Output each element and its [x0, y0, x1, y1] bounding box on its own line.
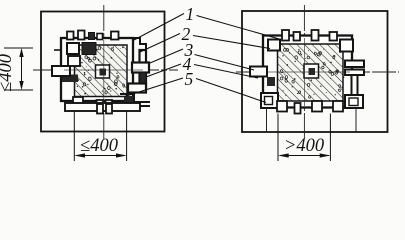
right hatch speckles	[282, 49, 344, 96]
left vertical centerline	[103, 5, 105, 141]
left right step	[132, 38, 146, 52]
leader 2 right	[193, 36, 270, 49]
right corner drop line left	[266, 108, 268, 132]
right bottom dimension >400	[278, 114, 330, 162]
leader 4 right	[194, 65, 258, 79]
left bottom dimension <=400	[74, 111, 126, 161]
leader 1 right	[197, 16, 282, 40]
left die frame plate	[61, 38, 133, 101]
left press table outline	[41, 12, 165, 132]
left right clamp lower bar	[128, 84, 146, 93]
right top bolt tabs	[282, 30, 289, 41]
left die block hatched	[75, 45, 128, 97]
left bottom tabs	[73, 97, 83, 106]
left vertical dimension <=400	[4, 48, 33, 90]
right top-right clamp notch	[340, 40, 353, 52]
right vertical centerline	[303, 5, 305, 141]
leader 5 left	[125, 78, 183, 97]
right bottom tabs	[277, 101, 287, 112]
left center insert	[100, 69, 107, 76]
right bottom-left step block	[261, 93, 278, 108]
svg-text:1: 1	[186, 4, 195, 24]
left right clamp upper bar	[132, 63, 149, 73]
left bottom-right step block	[116, 94, 150, 106]
svg-text:≤400: ≤400	[80, 136, 119, 156]
right die frame plate	[263, 36, 352, 108]
leader 5 right	[196, 79, 266, 103]
svg-text:≤400: ≤400	[0, 53, 16, 92]
left bottom center notch tabs	[97, 104, 103, 114]
left left clamp bar	[52, 66, 70, 76]
leader 4 left	[146, 64, 181, 77]
left left step box	[68, 56, 80, 66]
right corner drop line right	[355, 108, 357, 132]
right center insert	[309, 68, 316, 75]
leader 2 left	[140, 34, 180, 53]
left centerline overlay	[64, 40, 143, 104]
left right clamp bolt dark	[141, 73, 146, 86]
right right clamp bar	[345, 61, 364, 68]
leader 3 right	[195, 55, 255, 71]
left top-left clamp notch	[67, 43, 79, 54]
left frame left tick	[54, 49, 62, 51]
left left clamp dark bar	[62, 75, 78, 83]
right horizontal centerline	[236, 71, 399, 73]
left top bolt tabs	[67, 32, 74, 40]
left center die opening	[96, 65, 110, 78]
left bottom base bar	[65, 103, 140, 111]
right bottom-right step block	[345, 95, 363, 108]
right left clamp bar	[250, 67, 267, 77]
right centerline overlay	[266, 38, 350, 106]
right left clamp bolt dark	[267, 77, 275, 86]
right center die opening	[304, 64, 319, 78]
leader 1 left	[134, 14, 184, 41]
leader 3 left	[150, 49, 183, 63]
right hatch o-marks	[280, 46, 343, 99]
right die block hatched	[278, 44, 344, 101]
left horizontal centerline	[33, 69, 178, 71]
right right clamp column	[352, 75, 358, 100]
svg-text:5: 5	[185, 69, 194, 89]
left right clamp column	[140, 50, 147, 88]
left top clamp block dark	[82, 43, 96, 55]
left hatch speckles	[77, 46, 124, 94]
svg-text:>400: >400	[284, 136, 325, 156]
left hatch o-marks	[83, 46, 125, 94]
right top-left clamp notch	[268, 40, 280, 51]
right press table outline	[242, 11, 388, 132]
